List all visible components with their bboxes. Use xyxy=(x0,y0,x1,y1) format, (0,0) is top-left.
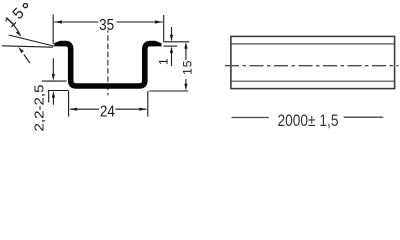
angle 15deg: leader arrow to sloped line (points down-right) xyxy=(13,24,18,31)
svg-text:24: 24 xyxy=(100,104,115,121)
svg-text:2,2-2,5: 2,2-2,5 xyxy=(31,85,46,132)
svg-text:15: 15 xyxy=(180,60,194,75)
side view: horizontal centerline (dash-dot) xyxy=(225,65,399,67)
rail profile (cross-section, thick black top-hat) xyxy=(54,44,161,86)
right lip tip chamfer xyxy=(155,41,162,44)
dimension 1 (thickness): lower extension line xyxy=(164,45,178,47)
left lip tip chamfer xyxy=(54,41,61,44)
dimension 15: bottom extension line xyxy=(149,90,188,92)
dimension 2,2-2,5: upper reference line xyxy=(42,80,67,82)
dimension 35: dimension line right segment xyxy=(117,21,163,23)
dimension 24: right arrowhead xyxy=(139,108,147,111)
svg-text:1: 1 xyxy=(156,58,170,65)
dimension 35: dimension line left segment xyxy=(54,21,98,23)
dimension 35: left extension line xyxy=(52,15,54,44)
dimension 2,2-2,5: short vertical tick at line end xyxy=(48,91,50,103)
svg-text:2000± 1,5: 2000± 1,5 xyxy=(278,112,339,130)
dimension 1: upper arrow (points down) xyxy=(171,27,173,36)
angle 15deg: horizontal reference line xyxy=(2,46,53,47)
dimension 24: right extension line xyxy=(147,91,149,117)
dimension 2,2-2,5: upper arrow (points down) xyxy=(52,58,54,75)
dimension 24: left extension line xyxy=(68,91,70,117)
side view: upper bend line xyxy=(231,43,395,45)
dimension 35: right extension line xyxy=(163,15,165,42)
dimension 2,2-2,5: bottom reference line (rail bottom extended) xyxy=(48,90,68,92)
side view: outer rectangle xyxy=(231,36,395,88)
centerline (vertical dashed, cross-section view) xyxy=(107,30,109,95)
dimension 15: dimension line lower segment with down arrowhead xyxy=(185,79,187,87)
dimension 24: left arrowhead xyxy=(69,108,77,111)
dimension 2,2-2,5: lower arrow (points up) xyxy=(52,96,54,105)
dimension 1 (thickness): upper extension line xyxy=(164,41,190,43)
dimension 35: left arrowhead xyxy=(54,20,62,23)
dimension 2000: dimension line right segment xyxy=(344,116,384,118)
dimension 2000: dimension line left segment xyxy=(232,117,269,119)
angle 15deg: arrow to horizontal line (points up-left) xyxy=(24,55,30,64)
dimension 1: lower arrow (points up) xyxy=(171,52,173,66)
dimension 15: dimension line upper segment with up arrowhead xyxy=(185,47,187,61)
dimension 24: dimension line left segment xyxy=(70,108,99,110)
svg-text:35: 35 xyxy=(99,17,114,34)
side view: lower bend line xyxy=(231,80,395,82)
angle 15deg: sloped line (15 degrees) xyxy=(9,35,54,46)
dimension 35: right arrowhead xyxy=(155,20,163,23)
dimension 24: dimension line right segment xyxy=(116,108,147,110)
